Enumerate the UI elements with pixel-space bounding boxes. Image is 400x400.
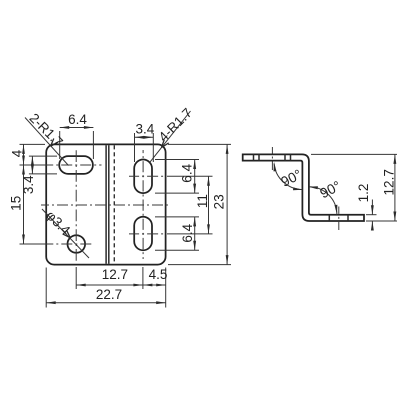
dimension 1.2 side [356, 184, 377, 231]
dimension 6.4 upper-right [155, 160, 199, 194]
extension line top edge left [20, 143, 46, 145]
hole edge ticks top flange [254, 154, 291, 160]
svg-text:2-R1.7: 2-R1.7 [27, 110, 66, 149]
svg-text:φ3.4: φ3.4 [43, 208, 73, 238]
svg-text:6.4: 6.4 [179, 163, 194, 182]
dimension 4 left [9, 144, 25, 165]
centerline upper-right slot [129, 175, 213, 177]
hole centerline bottom flange [338, 207, 340, 231]
slot hole lower-right [134, 217, 152, 251]
hole circle 3.4 [68, 235, 86, 253]
svg-text:23: 23 [211, 194, 226, 209]
dimension 15 left [9, 165, 25, 244]
bend tangent line right [108, 145, 110, 264]
svg-text:22.7: 22.7 [96, 287, 122, 302]
svg-text:90°: 90° [317, 177, 343, 201]
svg-text:4.5: 4.5 [149, 267, 168, 282]
dimension 23 right [168, 144, 231, 264]
front view body outline [46, 144, 165, 264]
hidden bend line [113, 145, 115, 264]
svg-text:11: 11 [195, 194, 210, 208]
svg-text:3.4: 3.4 [136, 122, 155, 137]
slot hole top-left [59, 156, 93, 174]
angle arc 90 lower [308, 177, 343, 214]
side view outline [243, 154, 364, 221]
centerline circle [20, 243, 93, 245]
svg-text:6.4: 6.4 [180, 223, 195, 242]
bend tangent line left [105, 145, 107, 264]
svg-text:4: 4 [9, 149, 24, 157]
angle arc 90 upper [274, 162, 305, 191]
dimension 12.7 bottom [76, 267, 143, 289]
dimension 6.4 lower-right [155, 217, 199, 250]
centerline lower-right slot [129, 233, 213, 235]
vertical centerline right slots [142, 150, 144, 259]
hole centerline top flange [271, 147, 273, 170]
hole edge ticks bottom flange [329, 215, 348, 221]
dimension 6.4 top [60, 112, 94, 159]
dimension 3.4 left [21, 156, 57, 194]
svg-text:6.4: 6.4 [68, 112, 87, 127]
svg-text:1.2: 1.2 [356, 184, 371, 203]
centerline top-left slot [20, 164, 102, 166]
dimension 4.5 bottom [143, 267, 167, 308]
svg-text:12.7: 12.7 [102, 267, 128, 282]
svg-text:12.7: 12.7 [381, 169, 396, 195]
svg-text:15: 15 [9, 196, 24, 211]
dimension 11 right [195, 176, 210, 234]
leader 4-R1.7 [150, 105, 195, 162]
dimension 3.4 top [135, 122, 155, 162]
vertical centerline left holes [75, 148, 77, 261]
dimension 22.7 bottom [46, 268, 166, 308]
svg-text:4-R1.7: 4-R1.7 [156, 105, 195, 144]
slot hole upper-right [134, 160, 152, 194]
svg-text:3.4: 3.4 [21, 175, 36, 194]
horizontal centerline middle [41, 204, 169, 206]
leader phi 3.4 [42, 208, 89, 258]
svg-text:90°: 90° [278, 166, 304, 190]
dimension 12.7 side [311, 154, 397, 221]
leader 2-R1.7 [25, 110, 69, 165]
